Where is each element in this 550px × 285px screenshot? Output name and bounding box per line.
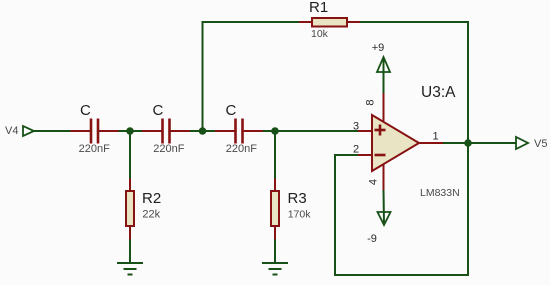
svg-text:220nF: 220nF xyxy=(153,143,184,155)
svg-text:C: C xyxy=(226,102,237,119)
svg-text:V5: V5 xyxy=(534,138,547,150)
svg-text:170k: 170k xyxy=(288,209,312,221)
svg-text:3: 3 xyxy=(353,121,359,133)
svg-text:+9: +9 xyxy=(372,42,385,54)
svg-text:R2: R2 xyxy=(142,190,161,207)
svg-text:4: 4 xyxy=(367,179,379,185)
svg-text:-9: -9 xyxy=(367,233,377,245)
svg-text:8: 8 xyxy=(364,99,376,105)
svg-text:C: C xyxy=(80,102,91,119)
svg-text:2: 2 xyxy=(353,144,359,156)
svg-text:R1: R1 xyxy=(309,0,328,16)
svg-text:C: C xyxy=(153,102,164,119)
svg-text:R3: R3 xyxy=(288,190,307,207)
svg-text:1: 1 xyxy=(432,131,438,143)
svg-text:V4: V4 xyxy=(5,125,18,137)
svg-text:U3:A: U3:A xyxy=(421,84,456,101)
svg-text:10k: 10k xyxy=(311,28,329,40)
svg-text:22k: 22k xyxy=(142,209,160,221)
svg-text:220nF: 220nF xyxy=(226,143,257,155)
svg-text:LM833N: LM833N xyxy=(420,187,460,199)
svg-text:220nF: 220nF xyxy=(79,143,110,155)
